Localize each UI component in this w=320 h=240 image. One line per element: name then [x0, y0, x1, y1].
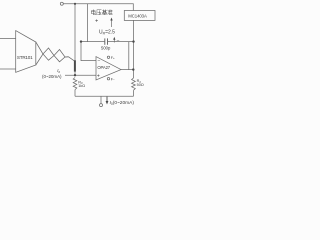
wire output drop — [100, 96, 102, 103]
svg-text:STR101: STR101 — [17, 55, 33, 60]
svg-text:MC1403A: MC1403A — [128, 13, 147, 18]
svg-text:F+: F+ — [111, 56, 115, 60]
wire bottom rail — [75, 95, 134, 97]
svg-text:+: + — [97, 73, 100, 79]
svg-text:OPA27: OPA27 — [97, 65, 110, 70]
svg-text:电压基准: 电压基准 — [91, 9, 114, 17]
wire input top-left — [0, 38, 16, 40]
svg-text:F−: F− — [111, 77, 115, 81]
svg-text:50Ω: 50Ω — [137, 83, 144, 87]
box MC1403A — [124, 11, 155, 21]
op-amp power pin circle top — [107, 56, 109, 58]
resistor R2 zigzag — [132, 78, 136, 90]
transmitter output tip — [36, 42, 43, 65]
junction dot node D — [132, 68, 134, 70]
wire vertical from top rail to + node — [74, 4, 76, 61]
annotation arrow up near capacitor wire — [113, 38, 115, 43]
terminal circle output — [100, 104, 103, 107]
resistor R1 zigzag — [43, 48, 69, 57]
svg-text:(0~20mA): (0~20mA) — [42, 74, 62, 79]
svg-text:−: − — [98, 58, 101, 64]
wire op-amp output — [121, 69, 134, 71]
resistor bar element — [74, 60, 76, 71]
capacitor C1 plates — [104, 38, 106, 44]
wire node B to capacitor — [81, 41, 105, 43]
wire node B down to inverting input — [81, 42, 96, 61]
wire vertical node C to node D — [133, 42, 135, 70]
svg-text:UR=2.5: UR=2.5 — [99, 30, 115, 36]
junction dot node B — [80, 40, 82, 42]
wire vertical left of reference — [87, 4, 89, 42]
wire vertical feedback left — [128, 42, 130, 70]
svg-text:1kΩ: 1kΩ — [78, 84, 85, 88]
terminal circle supply — [60, 2, 63, 5]
wire MC1403A output down — [133, 20, 135, 41]
wire capacitor to node C — [108, 41, 134, 43]
transmitter STR101 body — [16, 31, 36, 73]
svg-text:I0(0~20mA): I0(0~20mA) — [110, 100, 135, 106]
wire R1 to node — [69, 57, 75, 61]
wire R2 to bottom rail — [133, 90, 135, 96]
junction dot node C — [132, 40, 134, 42]
wire input bottom-left — [0, 68, 16, 70]
arrowhead output current — [106, 101, 109, 105]
svg-text:−: − — [117, 38, 120, 44]
resistor R3 zigzag — [73, 78, 77, 90]
svg-text:500p: 500p — [101, 46, 111, 51]
junction dot noninverting node — [74, 74, 76, 76]
arrowhead annotation 1 — [110, 18, 112, 21]
op-amp power pin circle bottom — [107, 78, 109, 80]
junction dot top rail — [74, 3, 76, 5]
arrowhead annotation 2 — [113, 37, 115, 40]
svg-text:+: + — [95, 18, 98, 24]
wire node D down to R2 — [133, 70, 135, 78]
op-amp U1 triangle — [96, 57, 121, 80]
annotation arrow up near reference label — [111, 19, 113, 27]
wire R3 to bottom rail — [74, 90, 76, 97]
wire top rail — [63, 4, 133, 11]
arrow output current — [106, 97, 108, 103]
wire noninverting input — [65, 74, 96, 76]
